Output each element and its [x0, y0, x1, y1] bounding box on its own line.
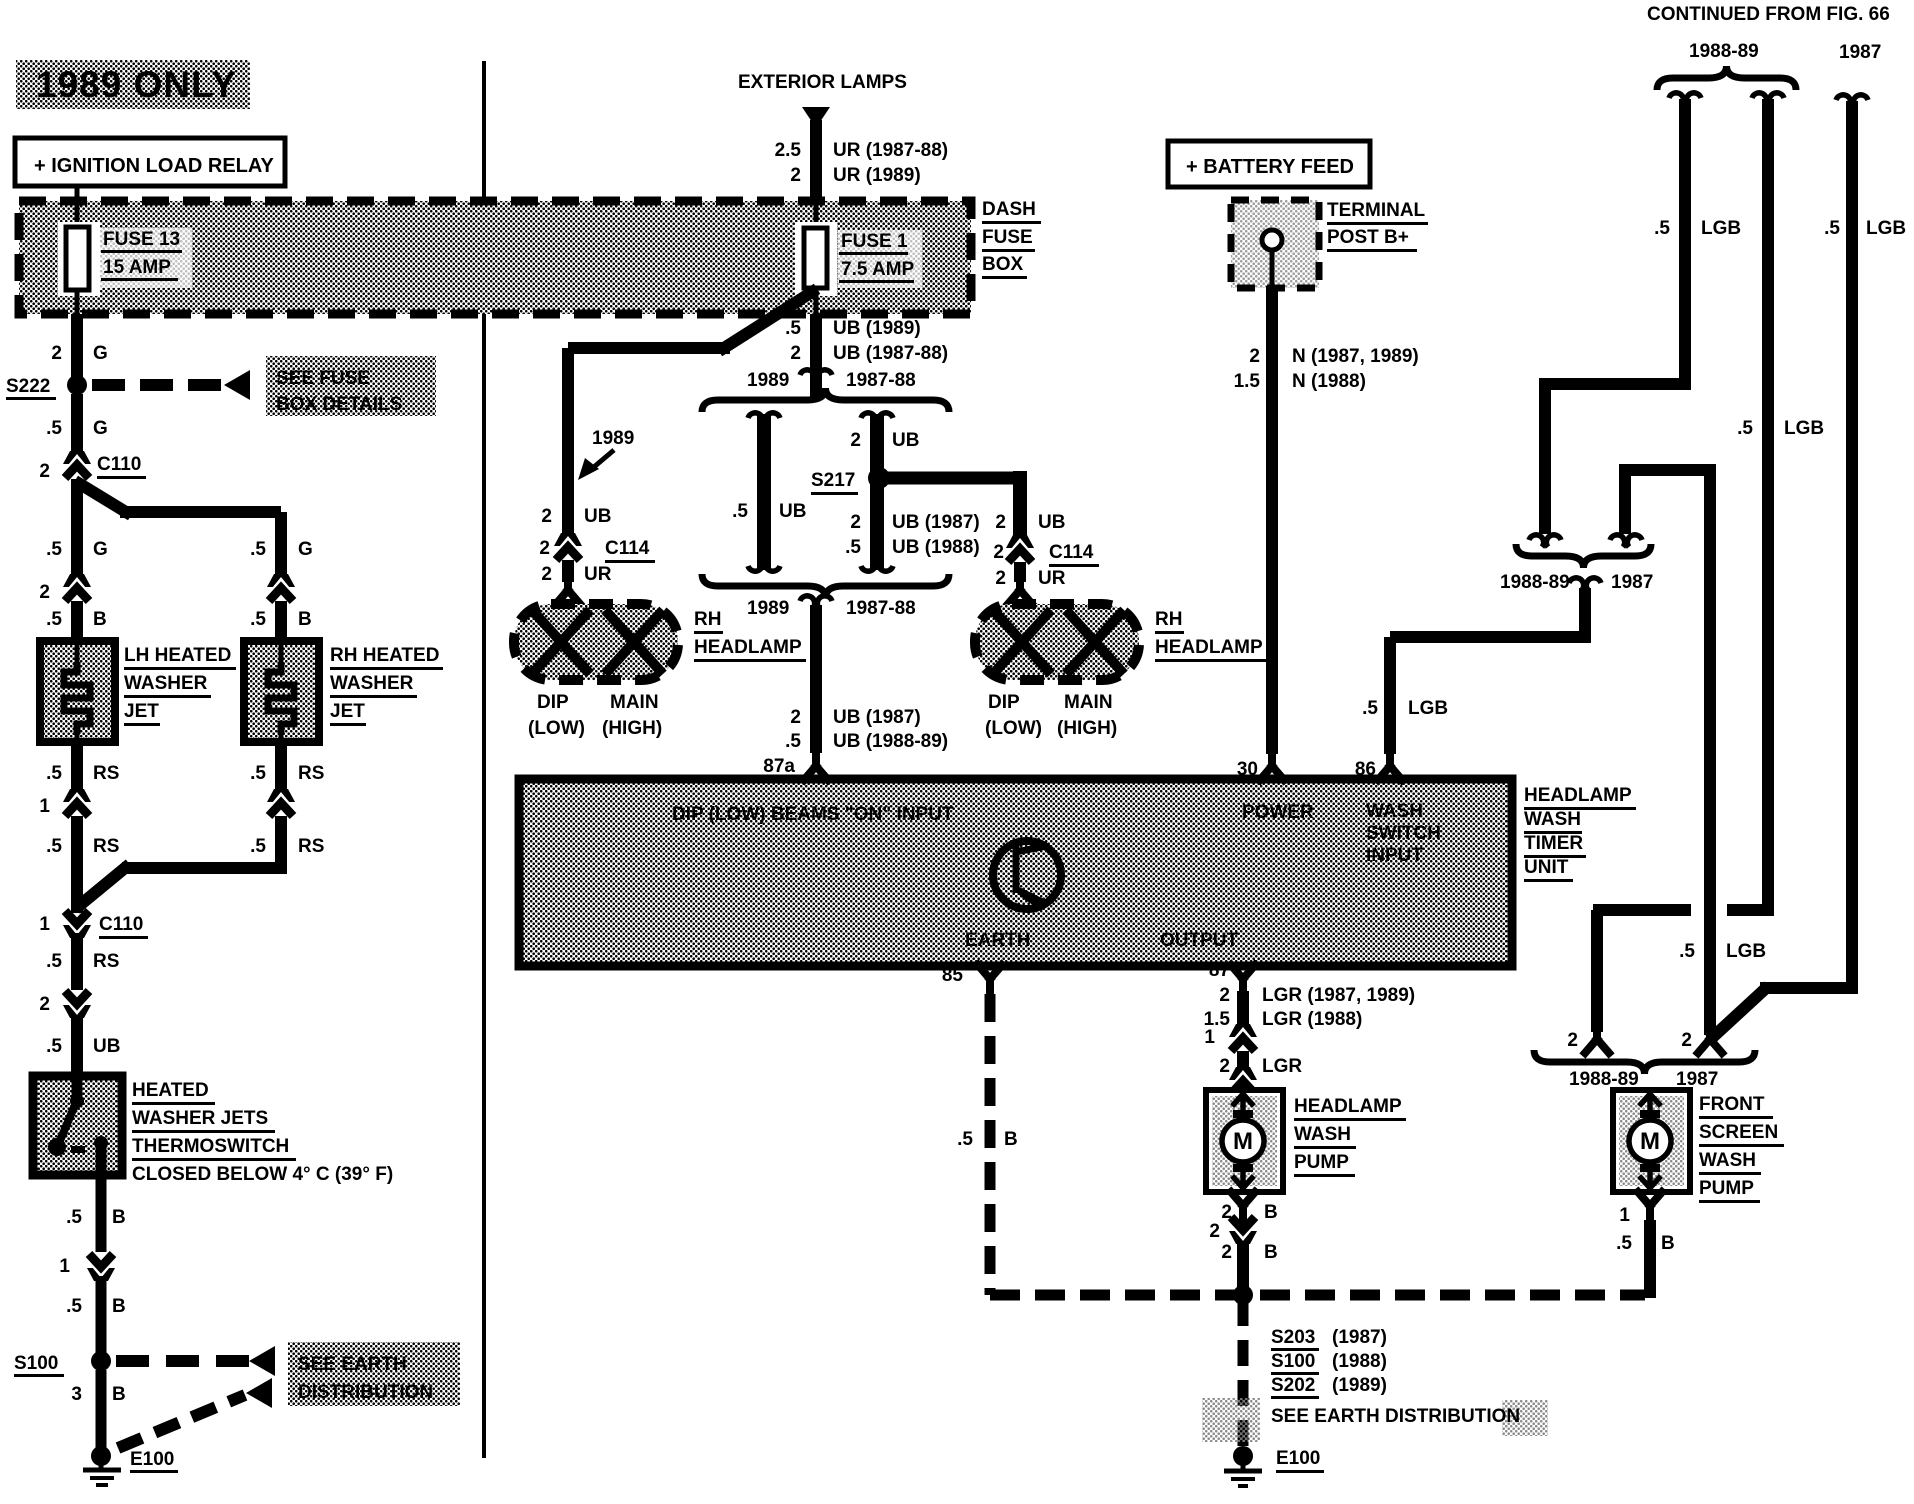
hook junction above bracket	[800, 370, 832, 382]
svg-text:THERMOSWITCH: THERMOSWITCH	[132, 1136, 289, 1157]
svg-text:(1989): (1989)	[1332, 1375, 1387, 1396]
svg-text:N (1988): N (1988)	[1292, 371, 1366, 392]
wire LH jet down	[71, 742, 83, 795]
battery feed box	[1168, 141, 1370, 187]
wire pin 87 down	[1237, 991, 1249, 1030]
svg-text:FUSE 13: FUSE 13	[103, 229, 180, 250]
svg-text:WASHER: WASHER	[330, 673, 414, 694]
svg-text:.5: .5	[845, 537, 861, 558]
wire earth bus to E100 (dashed)	[1238, 1300, 1249, 1447]
svg-text:1989: 1989	[747, 370, 789, 391]
bottom right bracket (under-brace)	[1534, 1050, 1755, 1074]
connector right RS	[267, 789, 295, 816]
svg-text:UB: UB	[93, 1036, 120, 1057]
svg-text:TERMINAL: TERMINAL	[1327, 200, 1426, 221]
svg-text:1.5: 1.5	[1234, 371, 1261, 392]
svg-text:FUSE: FUSE	[982, 227, 1033, 248]
svg-text:UB (1987-88): UB (1987-88)	[833, 343, 948, 364]
top bracket (over-brace)	[702, 388, 949, 412]
mid bracket (under-brace)	[1516, 544, 1651, 568]
svg-text:87a: 87a	[763, 756, 795, 777]
wire thermoswitch down	[96, 1179, 107, 1252]
label FUSE 1 / 7.5 AMP	[838, 230, 922, 288]
svg-text:UB: UB	[1038, 512, 1065, 533]
svg-text:2: 2	[39, 582, 50, 603]
svg-text:RS: RS	[93, 763, 119, 784]
wire right down to merge	[275, 816, 287, 874]
svg-text:S202: S202	[1271, 1375, 1315, 1396]
wire branch to RH jet: horizontal	[120, 506, 281, 518]
svg-text:DIP: DIP	[988, 692, 1020, 713]
svg-text:N (1987, 1989): N (1987, 1989)	[1292, 346, 1419, 367]
svg-text:SCREEN: SCREEN	[1699, 1122, 1778, 1143]
svg-text:UR (1987-88): UR (1987-88)	[833, 140, 948, 161]
svg-text:S203: S203	[1271, 1327, 1315, 1348]
svg-text:C114: C114	[1049, 542, 1094, 563]
svg-text:.5: .5	[1362, 698, 1378, 719]
1987-88 wire inside bracket (right)	[870, 414, 884, 570]
svg-text:(HIGH): (HIGH)	[602, 718, 662, 739]
wire LGB 3 (1987)	[1836, 95, 1868, 107]
svg-text:2: 2	[1219, 985, 1230, 1006]
ignition load relay box	[15, 138, 285, 186]
svg-text:HEADLAMP: HEADLAMP	[1524, 785, 1632, 806]
svg-text:B: B	[1264, 1242, 1278, 1263]
wire into LH jet	[71, 601, 83, 645]
connector C114 (left)	[554, 533, 582, 560]
svg-text:30: 30	[1237, 759, 1258, 780]
svg-text:WASHER: WASHER	[124, 673, 208, 694]
svg-text:LH HEATED: LH HEATED	[124, 645, 231, 666]
connector above pump	[1229, 1067, 1257, 1094]
svg-text:S222: S222	[6, 376, 50, 397]
heated washer jets thermoswitch	[33, 1076, 122, 1175]
wire front pump to earth bus	[1644, 1220, 1656, 1298]
svg-text:G: G	[298, 539, 313, 560]
wire to headlamp wash pump	[1237, 1051, 1249, 1071]
svg-text:UR: UR	[1038, 568, 1066, 589]
left headlamp (RH HEADLAMP)	[514, 604, 678, 680]
svg-text:HEATED: HEATED	[132, 1080, 209, 1101]
svg-text:UB (1987): UB (1987)	[833, 707, 921, 728]
svg-text:.5: .5	[46, 763, 62, 784]
note SEE EARTH DISTRIBUTION (left)	[288, 1342, 460, 1406]
wire LGB 1 (1988-89 left)	[1669, 93, 1701, 105]
svg-text:1: 1	[39, 914, 50, 935]
svg-text:M: M	[1640, 1128, 1660, 1155]
svg-text:SEE EARTH DISTRIBUTION: SEE EARTH DISTRIBUTION	[1271, 1406, 1520, 1427]
svg-text:(1988): (1988)	[1332, 1351, 1387, 1372]
svg-text:EXTERIOR LAMPS: EXTERIOR LAMPS	[738, 72, 907, 93]
svg-text:RS: RS	[93, 951, 119, 972]
svg-text:JET: JET	[330, 701, 365, 722]
branch diagonal from fuse 1	[724, 292, 812, 348]
svg-text:E100: E100	[130, 1449, 174, 1470]
svg-text:WASH: WASH	[1294, 1124, 1351, 1145]
dashed diagonal arrow to see-earth note	[118, 1395, 245, 1448]
svg-text:LGB: LGB	[1784, 418, 1824, 439]
svg-text:C114: C114	[605, 538, 650, 559]
wire left to C110 lower	[71, 816, 83, 913]
svg-text:2: 2	[790, 343, 801, 364]
svg-text:S217: S217	[811, 470, 855, 491]
svg-text:B: B	[112, 1296, 126, 1317]
svg-text:1988-89: 1988-89	[1689, 41, 1759, 62]
svg-text:.5: .5	[250, 539, 266, 560]
svg-text:C110: C110	[99, 914, 143, 935]
fuse F13	[58, 222, 100, 296]
svg-text:.5: .5	[1737, 418, 1753, 439]
wire S217 branch down to C114 right	[1013, 471, 1027, 538]
svg-text:.5: .5	[66, 1296, 82, 1317]
svg-text:UB (1989): UB (1989)	[833, 318, 921, 339]
svg-text:HEADLAMP: HEADLAMP	[1294, 1096, 1402, 1117]
svg-text:2: 2	[39, 994, 50, 1015]
wire S100 to E100	[96, 1370, 107, 1450]
svg-text:HEADLAMP: HEADLAMP	[1155, 637, 1263, 658]
node S100	[91, 1351, 111, 1371]
note SEE FUSE BOX DETAILS	[266, 356, 436, 416]
svg-text:UB: UB	[892, 430, 919, 451]
svg-text:B: B	[1004, 1129, 1018, 1150]
svg-text:WASH: WASH	[1366, 801, 1423, 822]
fork below front screen pump	[1638, 1192, 1662, 1220]
svg-text:E100: E100	[1276, 1448, 1320, 1469]
wire 1987 hook up-right jog	[1619, 470, 1631, 534]
svg-text:FRONT: FRONT	[1699, 1094, 1765, 1115]
svg-text:2: 2	[1221, 1242, 1232, 1263]
wire fuse 1 to box edge	[814, 286, 819, 316]
svg-text:WASH: WASH	[1524, 809, 1581, 830]
svg-text:2.5: 2.5	[775, 140, 802, 161]
title 1989 ONLY	[16, 60, 250, 109]
svg-text:1989: 1989	[592, 428, 634, 449]
svg-text:15 AMP: 15 AMP	[103, 257, 171, 278]
connector left RS	[63, 789, 91, 816]
svg-text:.5: .5	[1654, 218, 1670, 239]
svg-text:POWER: POWER	[1242, 802, 1314, 823]
bottom bracket (under-brace)	[702, 574, 949, 598]
svg-text:G: G	[93, 418, 108, 439]
wire S217 to right headlamp: horizontal	[884, 472, 1027, 485]
svg-text:LGB: LGB	[1408, 698, 1448, 719]
wire RH jet down	[275, 742, 287, 795]
wire branch to RH jet: vertical	[275, 512, 287, 585]
node S222	[67, 375, 87, 395]
svg-text:OUTPUT: OUTPUT	[1160, 930, 1239, 951]
svg-text:RS: RS	[93, 836, 119, 857]
svg-text:.5: .5	[785, 731, 801, 752]
wire bracket to pin 86	[1579, 588, 1591, 637]
label FUSE 13 / 15 AMP	[100, 228, 192, 288]
fork 2 (1988-89, front screen pump)	[1585, 1025, 1609, 1053]
wire fuse 13 to dash box edge	[75, 290, 80, 316]
svg-text:JET: JET	[124, 701, 159, 722]
timer clock symbol	[993, 841, 1061, 911]
svg-text:POST B+: POST B+	[1327, 227, 1409, 248]
svg-text:B: B	[298, 609, 312, 630]
svg-text:HEADLAMP: HEADLAMP	[694, 637, 802, 658]
svg-text:G: G	[93, 539, 108, 560]
section divider line	[482, 61, 486, 1458]
headlamp wash timer unit box	[519, 779, 1512, 966]
svg-text:1989 ONLY: 1989 ONLY	[36, 64, 237, 105]
svg-text:SEE FUSE: SEE FUSE	[276, 368, 370, 389]
svg-text:2: 2	[850, 512, 861, 533]
svg-text:B: B	[1264, 1202, 1278, 1223]
wire into RH jet	[275, 601, 287, 645]
svg-text:1988-89: 1988-89	[1500, 572, 1570, 593]
wire LGB3 jog and diagonal to 1987 fork	[1760, 982, 1858, 994]
svg-text:(LOW): (LOW)	[985, 718, 1042, 739]
svg-text:.5: .5	[957, 1129, 973, 1150]
earth wire from pin 85 (dashed)	[985, 994, 996, 1295]
wire LGB2 crossover to 1597	[1593, 904, 1691, 916]
svg-text:CLOSED BELOW 4° C (39° F): CLOSED BELOW 4° C (39° F)	[132, 1164, 393, 1185]
svg-text:UB: UB	[584, 506, 611, 527]
arrow from exterior lamps	[802, 107, 830, 128]
merge jog: diagonal	[80, 868, 125, 905]
dash fuse box (shaded dashed box)	[19, 201, 971, 314]
svg-text:3: 3	[71, 1384, 82, 1405]
svg-text:1: 1	[59, 1256, 70, 1277]
svg-text:UB: UB	[779, 501, 806, 522]
svg-text:(1987): (1987)	[1332, 1327, 1387, 1348]
svg-text:LGB: LGB	[1701, 218, 1741, 239]
svg-text:2: 2	[790, 165, 801, 186]
wire branch to RH jet: diagonal	[80, 484, 126, 512]
svg-text:.5: .5	[1824, 218, 1840, 239]
svg-text:G: G	[93, 343, 108, 364]
svg-text:PUMP: PUMP	[1294, 1152, 1349, 1173]
wire C114 right into lamp	[1014, 562, 1026, 582]
svg-text:2: 2	[995, 512, 1006, 533]
node S217	[868, 467, 890, 489]
svg-text:.5: .5	[46, 1036, 62, 1057]
wire bracket to pin 87a	[810, 605, 822, 753]
mid bracket hooks	[1529, 535, 1561, 547]
svg-text:.5: .5	[732, 501, 748, 522]
LH heated washer jet	[40, 641, 115, 742]
merge jog: horizontal	[122, 862, 281, 874]
wire pump to earth bus	[1237, 1241, 1249, 1295]
connector 1 (LGR)	[1229, 1024, 1257, 1051]
1989 wire inside bracket (left)	[757, 414, 771, 570]
connector right jet	[267, 574, 295, 601]
svg-text:SEE EARTH: SEE EARTH	[298, 1354, 407, 1375]
svg-text:UR: UR	[584, 564, 612, 585]
svg-text:2: 2	[1567, 1030, 1578, 1051]
headlamp wash pump box	[1206, 1090, 1283, 1192]
svg-text:DIP (LOW) BEAMS "ON" INPUT: DIP (LOW) BEAMS "ON" INPUT	[672, 804, 954, 825]
svg-text:2: 2	[1209, 1221, 1220, 1242]
svg-text:UR (1989): UR (1989)	[833, 165, 921, 186]
wire exterior lamps to dash fuse box	[810, 120, 822, 201]
svg-text:LGR (1988): LGR (1988)	[1262, 1009, 1362, 1030]
svg-text:.5: .5	[1679, 941, 1695, 962]
svg-text:DIP: DIP	[537, 692, 569, 713]
svg-text:1987-88: 1987-88	[846, 598, 916, 619]
svg-text:SWITCH: SWITCH	[1366, 823, 1441, 844]
svg-text:1987: 1987	[1676, 1069, 1718, 1090]
connector C110 (upper)	[63, 451, 91, 478]
svg-text:2: 2	[1249, 346, 1260, 367]
svg-text:1987: 1987	[1839, 42, 1881, 63]
svg-text:1987: 1987	[1611, 572, 1653, 593]
wire to S100	[96, 1276, 107, 1361]
svg-text:RH: RH	[1155, 609, 1182, 630]
svg-text:M: M	[1233, 1128, 1253, 1155]
svg-text:2: 2	[51, 343, 62, 364]
RH heated washer jet	[244, 641, 319, 742]
wire C110 down (left branch)	[71, 479, 83, 585]
svg-text:C110: C110	[97, 454, 141, 475]
svg-text:1: 1	[1204, 1027, 1215, 1048]
svg-text:BOX: BOX	[982, 254, 1024, 275]
svg-text:TIMER: TIMER	[1524, 833, 1583, 854]
fork 2 (1987, front screen pump)	[1698, 1025, 1722, 1053]
svg-text:(HIGH): (HIGH)	[1057, 718, 1117, 739]
svg-text:.5: .5	[66, 1207, 82, 1228]
svg-text:2: 2	[541, 506, 552, 527]
svg-text:(LOW): (LOW)	[528, 718, 585, 739]
top right bracket (over-brace)	[1657, 66, 1796, 90]
svg-text:UB (1988): UB (1988)	[892, 537, 980, 558]
svg-text:S100: S100	[14, 1353, 58, 1374]
svg-text:7.5 AMP: 7.5 AMP	[841, 259, 915, 280]
svg-text:B: B	[93, 609, 107, 630]
wire into fuse 1	[814, 197, 819, 229]
svg-text:FUSE 1: FUSE 1	[841, 231, 908, 252]
svg-text:RH HEATED: RH HEATED	[330, 645, 439, 666]
svg-text:.5: .5	[250, 763, 266, 784]
wire LGB 1 jog to 1540	[1539, 378, 1691, 390]
wire ignition relay to fuse 13	[75, 186, 80, 228]
svg-text:.5: .5	[1616, 1233, 1632, 1254]
svg-text:B: B	[1661, 1233, 1675, 1254]
wire C110 lower down	[71, 933, 83, 990]
svg-text:.5: .5	[785, 318, 801, 339]
svg-text:B: B	[112, 1384, 126, 1405]
svg-text:LGR (1987, 1989): LGR (1987, 1989)	[1262, 985, 1415, 1006]
svg-text:DASH: DASH	[982, 199, 1036, 220]
svg-text:UNIT: UNIT	[1524, 857, 1569, 878]
svg-text:2: 2	[995, 568, 1006, 589]
svg-text:UB (1987): UB (1987)	[892, 512, 980, 533]
right headlamp (RH HEADLAMP)	[975, 604, 1139, 680]
svg-text:1987-88: 1987-88	[846, 370, 916, 391]
dashed arrow S222 to see-fuse-box note	[92, 379, 225, 391]
connector below pump	[1229, 1217, 1257, 1244]
note SEE EARTH DISTRIBUTION (right)	[1202, 1398, 1260, 1442]
svg-text:2: 2	[541, 564, 552, 585]
svg-text:UB (1988-89): UB (1988-89)	[833, 731, 948, 752]
svg-text:INPUT: INPUT	[1366, 845, 1423, 866]
ground E100 (right)	[1233, 1446, 1253, 1466]
svg-text:.5: .5	[46, 418, 62, 439]
fork below headlamp pump	[1231, 1192, 1255, 1220]
wire LGB 2 (1988-89 right)	[1752, 93, 1784, 105]
ground E100 (left)	[91, 1446, 111, 1466]
svg-text:BOX DETAILS: BOX DETAILS	[276, 394, 402, 415]
svg-text:2: 2	[790, 707, 801, 728]
svg-text:1989: 1989	[747, 598, 789, 619]
svg-text:2: 2	[539, 538, 550, 559]
wire S222 to C110	[71, 394, 83, 455]
wire fuse 13 to S222	[71, 314, 83, 385]
svg-text:.5: .5	[250, 609, 266, 630]
connector 1 (earth chain)	[87, 1254, 115, 1281]
svg-text:2: 2	[1681, 1030, 1692, 1051]
connector C110 (lower)	[63, 911, 91, 938]
wire fuse 1 down to bracket	[810, 314, 822, 398]
svg-text:MAIN: MAIN	[610, 692, 659, 713]
svg-text:WASH: WASH	[1699, 1150, 1756, 1171]
wire terminal post to pin 30	[1266, 286, 1278, 754]
svg-text:.5: .5	[46, 951, 62, 972]
svg-text:+ BATTERY FEED: + BATTERY FEED	[1186, 156, 1354, 178]
svg-text:LGB: LGB	[1726, 941, 1766, 962]
connector left jet	[63, 574, 91, 601]
svg-text:PUMP: PUMP	[1699, 1178, 1754, 1199]
wire C114 left into lamp	[562, 560, 574, 582]
connector 2 (thermo)	[63, 991, 91, 1018]
svg-text:1988-89: 1988-89	[1569, 1069, 1639, 1090]
fuse F1	[795, 222, 837, 296]
svg-text:RS: RS	[298, 763, 324, 784]
svg-text:LGR: LGR	[1262, 1056, 1302, 1077]
svg-text:RS: RS	[298, 836, 324, 857]
earth bus node	[1233, 1285, 1253, 1305]
branch horizontal to 1989 wire	[568, 342, 730, 354]
dashed arrow S100 to see-earth note	[116, 1355, 250, 1367]
svg-text:2: 2	[850, 430, 861, 451]
svg-text:2: 2	[39, 461, 50, 482]
svg-text:.5: .5	[46, 836, 62, 857]
svg-text:.5: .5	[250, 836, 266, 857]
svg-text:DISTRIBUTION: DISTRIBUTION	[298, 1382, 433, 1403]
svg-text:1: 1	[39, 796, 50, 817]
earth bus horizontal (dashed)	[990, 1290, 1645, 1301]
svg-text:87: 87	[1209, 960, 1230, 981]
front screen wash pump box	[1613, 1090, 1690, 1192]
svg-text:EARTH: EARTH	[965, 930, 1030, 951]
svg-text:RH: RH	[694, 609, 721, 630]
svg-text:B: B	[112, 1207, 126, 1228]
1989 branch vertical wire	[562, 348, 574, 538]
svg-text:+ IGNITION LOAD RELAY: + IGNITION LOAD RELAY	[34, 155, 275, 177]
svg-text:1: 1	[1619, 1205, 1630, 1226]
svg-text:.5: .5	[46, 539, 62, 560]
svg-text:MAIN: MAIN	[1064, 692, 1113, 713]
terminal post B+ (dashed box)	[1231, 200, 1319, 288]
svg-text:CONTINUED FROM FIG. 66: CONTINUED FROM FIG. 66	[1647, 4, 1890, 25]
svg-text:.5: .5	[46, 609, 62, 630]
svg-text:S100: S100	[1271, 1351, 1315, 1372]
svg-text:85: 85	[942, 965, 964, 986]
svg-text:2: 2	[993, 542, 1004, 563]
svg-text:2: 2	[1219, 1056, 1230, 1077]
svg-text:LGB: LGB	[1866, 218, 1906, 239]
connector C114 (right)	[1006, 535, 1034, 562]
svg-text:86: 86	[1355, 759, 1376, 780]
svg-text:WASHER JETS: WASHER JETS	[132, 1108, 268, 1129]
